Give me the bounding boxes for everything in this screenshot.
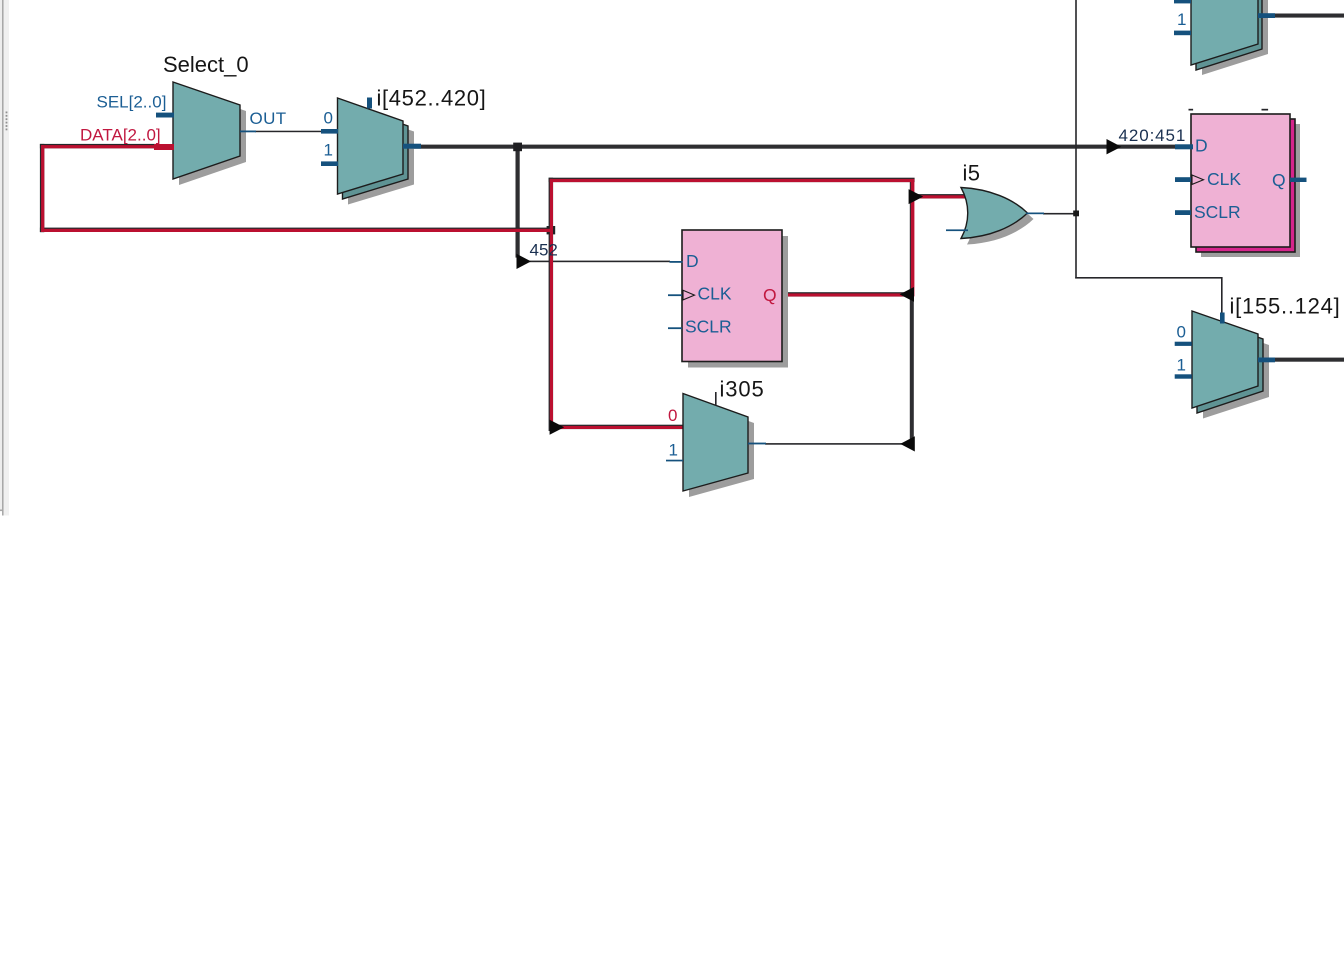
pin stub 0 of i[452..420] [321,129,338,134]
wire: red vertical x=551 (black underlay) [549,178,554,431]
wire: red into i305 input 0 [551,426,684,429]
svg-text:452: 452 [530,241,558,260]
pin stub SCLR of right DFF [1175,210,1191,215]
arrow into OR gate input [909,189,924,204]
svg-text:i[155..124]: i[155..124] [1230,294,1341,319]
dff i305_0 (center) [682,230,788,368]
wire: red feedback net left loop vertical (black underlay) [40,144,44,232]
wire: red top horizontal y=180 [550,179,914,182]
svg-text:1: 1 [1177,356,1186,375]
wire: red feedback net left loop vertical [41,145,44,232]
pin stub CLK of right DFF [1175,177,1191,182]
svg-text:0: 0 [668,406,677,425]
clipped label fragments above right DFF [1189,109,1194,111]
mux top (partial, bus, doubled) [1191,0,1268,75]
wire: red from DFF Q to vertical [783,293,911,296]
svg-text:CLK: CLK [698,283,732,303]
pin stub OUT on Select_0 [240,131,256,133]
clock chevron center DFF [683,290,695,300]
svg-text:Q: Q [763,285,777,305]
mux Select_0 [173,82,246,185]
clock chevron right DFF [1192,175,1204,184]
arrow into DFF D (420:451) [1107,139,1122,154]
svg-text:Select_0: Select_0 [163,52,249,77]
svg-text:SCLR: SCLR [1194,202,1241,222]
wire: thin black vertical x=1222 down to select [1221,277,1223,315]
dff (right, bus, doubled) [1191,114,1300,257]
pin stub D of right DFF [1175,144,1193,149]
select pin tick of i305 [715,392,717,406]
wire: thick black output of mux i[155..124] [1272,358,1344,362]
svg-text:420:451: 420:451 [1119,126,1187,145]
pin stub input 2 of i5 [946,229,968,231]
svg-text:1: 1 [669,441,678,460]
select pin stub of i[452..420] [367,98,372,109]
wire: red into i305 input 0 (black underlay) [550,425,684,429]
output stub of i305 [748,443,766,445]
wire: red into OR gate i5 (black underlay) [914,194,968,198]
pin stub DATA on Select_0 (red) [154,144,174,150]
wire: red bottom horizontal y=230 (black underlay) [40,228,553,232]
mux i305 [683,394,754,498]
mux i[155..124] (bus, doubled) [1192,311,1269,419]
pin stub SCLR of center DFF [668,327,682,329]
pin stub 1 of i305 [666,460,683,462]
output stub of i5 [1026,213,1044,215]
svg-text:0: 0 [1177,322,1186,341]
wire: thick black bus y=146 from mux i[452..420] to DFF [408,145,1175,149]
wire: red horizontal into DATA stub [41,145,158,148]
svg-text:i[452..420]: i[452..420] [377,86,487,111]
wire: red top horizontal y=180 (black underlay) [549,178,915,182]
wire: thick black output of top mux [1272,14,1344,18]
wire: thin OUT net Select_0 to mux [255,131,322,133]
left splitter panel strip [0,0,9,516]
output stub of i[452..420] [403,144,421,149]
wire: red into OR gate i5 input [914,195,968,198]
output stub of top mux [1258,13,1275,18]
wire: thick black vertical x=912 lower [910,181,914,444]
svg-text:D: D [686,251,699,271]
pin stub 0 of i[155..124] [1175,342,1192,346]
svg-text:Q: Q [1272,170,1286,190]
select pin stub of i[155..124] [1220,313,1225,324]
wire: thin black from i305 output [765,443,902,445]
wire: thin black D-line to center DFF [529,261,670,263]
wire: red bottom horizontal y=230 [41,229,553,232]
wire: red from DFF Q (black underlay) [783,292,911,296]
pin stub 0 of top mux [1174,0,1191,3]
wire: thin black vertical x=1076 [1075,0,1077,279]
pin stub 1 of top mux [1174,31,1191,36]
wire: red vertical x=551 [550,179,553,431]
arrow at bottom of x=518 vertical [517,254,532,269]
or gate i5 [961,188,1034,245]
pin stub 1 of i[155..124] [1175,374,1192,378]
svg-text:i305: i305 [720,377,765,402]
output stub of i[155..124] [1258,358,1275,363]
pin stub CLK of center DFF [668,294,682,296]
pin stub SEL on Select_0 [156,113,174,118]
svg-text:SCLR: SCLR [685,317,732,337]
mux i[452..420] (bus, doubled) [338,98,415,205]
svg-text:DATA[2..0]: DATA[2..0] [80,126,161,145]
wire: thin black OR output to junction [1043,213,1076,215]
svg-text:D: D [1195,136,1208,156]
wire: red vertical x=912 upper [911,179,915,297]
wire: thin black horizontal y=278 [1075,277,1222,279]
junction on red net at (551,230) [547,226,556,234]
pin stub Q of right DFF [1290,178,1307,182]
pin stub D of center DFF [670,261,683,263]
svg-text:i5: i5 [963,161,981,186]
arrow at corner into i305 input 0 [550,420,565,435]
arrow left-pointing at i305 output junction [900,436,915,451]
pin stub 1 of i[452..420] [321,161,338,166]
svg-text:0: 0 [324,108,333,127]
svg-text:1: 1 [324,140,333,159]
arrow left-pointing at Q junction [900,287,914,302]
svg-text:SEL[2..0]: SEL[2..0] [97,93,167,112]
svg-text:OUT: OUT [250,109,287,128]
wire: thick black vertical x=518 [516,145,520,258]
svg-text:1: 1 [1177,10,1186,29]
junction on black bus at (518,147) [513,143,522,152]
wire: red horizontal into DATA stub (black underlay) [40,144,158,148]
svg-text:CLK: CLK [1207,169,1241,189]
junction on OR output net [1073,211,1079,217]
